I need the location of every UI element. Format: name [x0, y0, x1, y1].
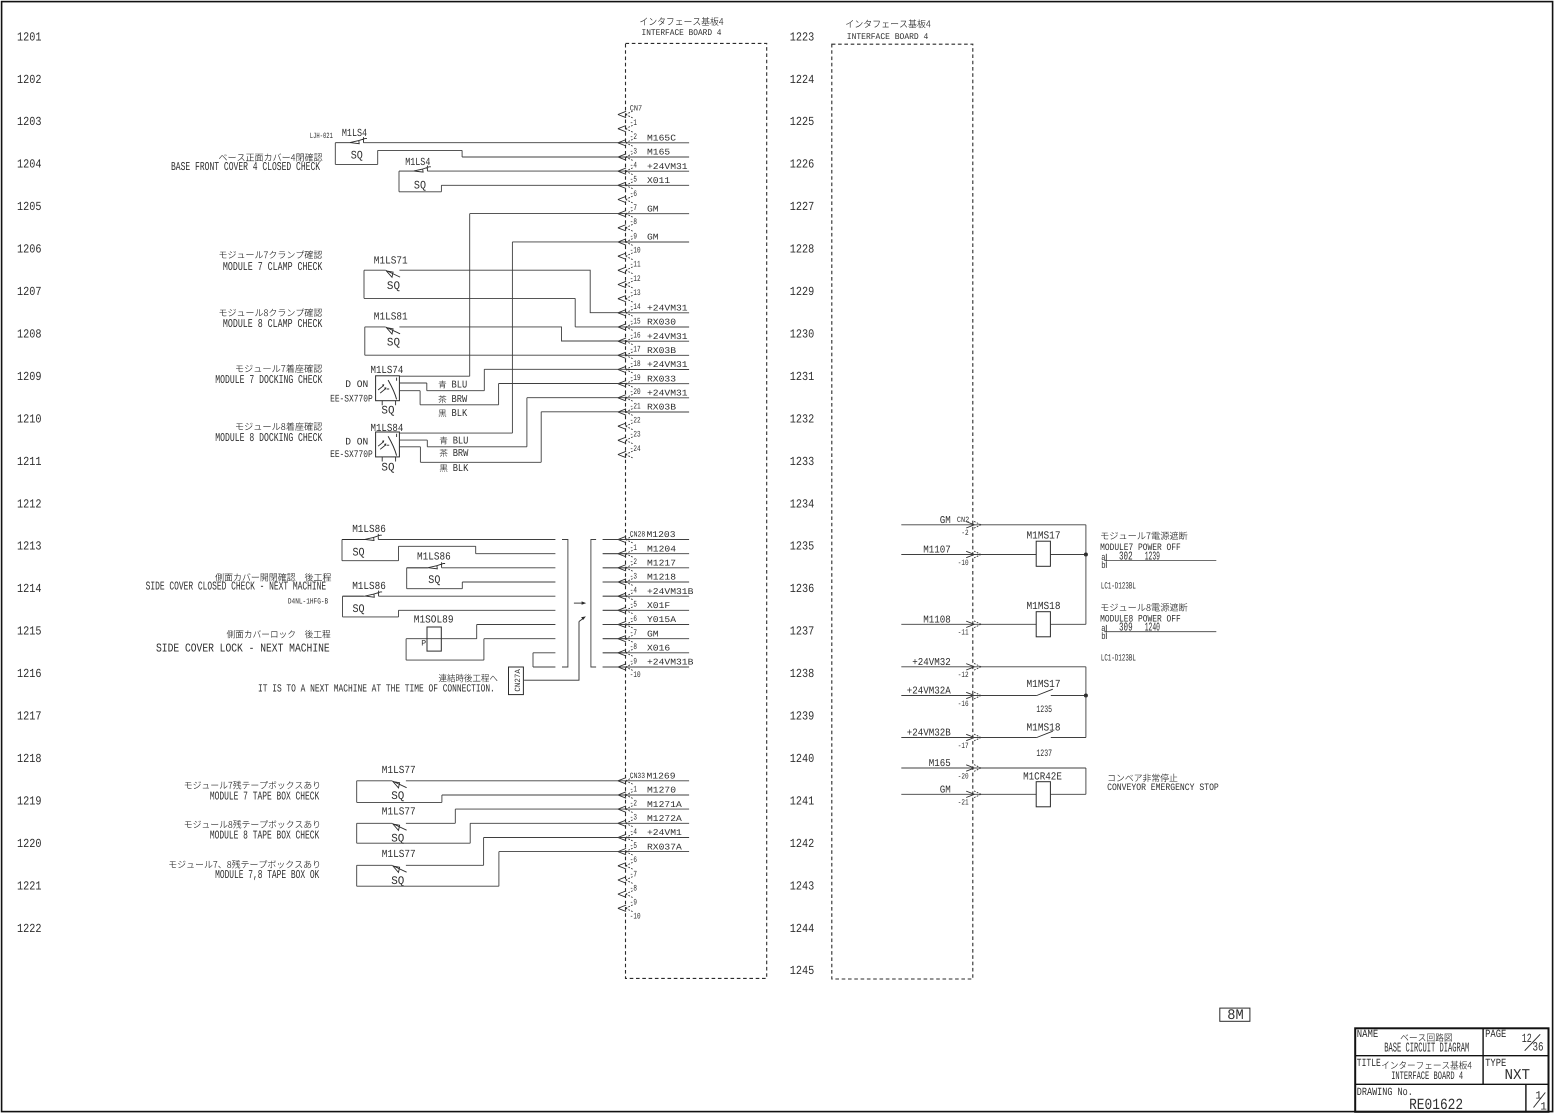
svg-text:12: 12 [1522, 1032, 1532, 1046]
svg-text:MODULE 8 DOCKING CHECK: MODULE 8 DOCKING CHECK [215, 431, 323, 445]
title block column divider [1482, 1028, 1484, 1084]
connector CN7 pin 12 chevron [618, 281, 626, 287]
wire CN7 pin 19 inner stub RX033 [626, 383, 689, 385]
connector CN33 pin 7 chevron [618, 877, 626, 883]
wire CN7 pin 20 inner stub +24VM31 [626, 397, 689, 399]
wire CN28 row 5 inner stub +24VM31B [603, 595, 689, 597]
wire row M1271A jog to switch M1LS77 no.2 [455, 809, 626, 823]
connector CN28 pin 2 chevron [618, 565, 626, 571]
svg-text:-6: -6 [630, 189, 637, 199]
svg-text:LC1-D123BL: LC1-D123BL [1101, 653, 1136, 664]
svg-text:-7: -7 [630, 869, 637, 879]
connector CN2 pin -20 chevron [966, 765, 974, 771]
svg-text:BLK: BLK [453, 463, 469, 475]
svg-text:RX037A: RX037A [647, 842, 683, 852]
svg-text:SIDE COVER LOCK - NEXT MACHINE: SIDE COVER LOCK - NEXT MACHINE [156, 642, 330, 656]
connector CN33 pin 1 chevron [618, 792, 626, 798]
interface board 4 (right) dashed outline [832, 44, 973, 979]
svg-text:1219: 1219 [17, 794, 42, 808]
svg-text:BLK: BLK [452, 408, 468, 420]
svg-text:1233: 1233 [790, 455, 815, 469]
svg-text:1239: 1239 [790, 710, 815, 724]
svg-text:-12: -12 [958, 671, 969, 680]
wire CN2 -2 GM rail [901, 525, 1086, 555]
wire solenoid M1SOL89 loop to row GM (CN28-7) [406, 639, 555, 660]
wire sensor M1LS84 top terminal to GM rail [399, 432, 512, 434]
svg-text:1242: 1242 [790, 837, 815, 851]
svg-text:302: 302 [1119, 550, 1133, 564]
8M reference box [1220, 1008, 1250, 1021]
cable bundle bracket right [591, 540, 596, 668]
wire sensor M1LS84 brown lead to CN7 pin21 RX03B [399, 412, 626, 463]
svg-text:Y015A: Y015A [647, 615, 677, 625]
svg-text:-16: -16 [630, 331, 641, 341]
svg-text:8M: 8M [1227, 1008, 1243, 1024]
svg-text:MODULE 7 CLAMP CHECK: MODULE 7 CLAMP CHECK [223, 260, 323, 274]
svg-text:INTERFACE BOARD 4: INTERFACE BOARD 4 [642, 28, 722, 38]
svg-text:-8: -8 [630, 883, 637, 893]
wire CN7 pin 15 inner stub RX030 [626, 326, 689, 328]
svg-text:INTERFACE BOARD 4: INTERFACE BOARD 4 [847, 32, 929, 42]
lead color label 黒 (sensor M1LS74) [439, 410, 447, 418]
wire switch M1LS77 no.2 loop to row M1272A [357, 823, 471, 843]
cross-reference tick a (MS17) [1105, 554, 1107, 561]
wire CN28 row 3 bundle-to-connector [603, 567, 626, 569]
wire CN7 pin2 M165C to switch M1LS4 no.1 [364, 142, 627, 144]
title block page slash [1525, 1034, 1541, 1050]
svg-text:M1270: M1270 [647, 786, 676, 796]
connector CN7 pin 18 chevron [618, 366, 626, 372]
svg-text:M165: M165 [647, 148, 670, 158]
svg-text:M165C: M165C [647, 134, 676, 144]
wire sensor M1LS74 brown lead to CN7 pin19 RX033 [399, 384, 626, 405]
svg-text:BLU: BLU [453, 435, 469, 447]
svg-text:-10: -10 [630, 670, 641, 680]
svg-text:1207: 1207 [17, 285, 42, 299]
connector CN7 pin 14 chevron [618, 310, 626, 316]
svg-text:-12: -12 [630, 274, 641, 284]
svg-text:1230: 1230 [790, 328, 815, 342]
svg-text:M1271A: M1271A [647, 800, 683, 810]
svg-text:1234: 1234 [790, 497, 815, 511]
connector CN7 pin 11 chevron [618, 267, 626, 273]
svg-text:1225: 1225 [790, 115, 815, 129]
svg-text:PAGE: PAGE [1485, 1029, 1507, 1041]
wire solenoid M1SOL89 right lead to row Y015A [441, 625, 555, 639]
svg-text:1204: 1204 [17, 158, 42, 172]
label ベース正面カバー4閉確認 [219, 153, 322, 161]
svg-text:MODULE 7 DOCKING CHECK: MODULE 7 DOCKING CHECK [215, 373, 323, 387]
wire CN7 pin 21 inner stub RX03B [626, 411, 689, 413]
svg-text:-2: -2 [630, 798, 637, 808]
wire switch M1LS86 no.2 loop to row M1218 [407, 568, 556, 589]
svg-text:-16: -16 [958, 700, 969, 709]
lead color label 青 (sensor M1LS84) [440, 436, 448, 444]
svg-text:-2: -2 [961, 529, 968, 538]
wire CN28 row 6 bundle-to-connector [603, 609, 626, 611]
svg-text:D ON: D ON [345, 380, 368, 391]
svg-text:-2: -2 [630, 557, 637, 567]
svg-text:MODULE 8 TAPE BOX CHECK: MODULE 8 TAPE BOX CHECK [210, 828, 320, 842]
label コンベア非常停止 [1109, 774, 1178, 783]
wire CN28 row 4 bundle-to-connector [603, 581, 626, 583]
svg-text:-8: -8 [630, 642, 637, 652]
lead color label 黒 (sensor M1LS84) [440, 464, 448, 472]
wire CN7 pin 18 inner stub +24VM31 [626, 369, 689, 371]
wire CN7 pin 17 inner stub RX03B [626, 354, 689, 356]
board2 title japanese インタフェース基板4 [846, 19, 930, 28]
label モジュール8残テープボックスあり [185, 820, 319, 829]
wire CN2 -10 M1107 to coil M1MS17 [901, 554, 1036, 556]
svg-text:NAME: NAME [1357, 1029, 1379, 1041]
svg-text:1223: 1223 [790, 30, 815, 44]
svg-text:-22: -22 [630, 416, 641, 426]
label 側面カバー開閉確認 後工程 [215, 573, 331, 581]
label モジュール8クランプ確認 [220, 308, 323, 316]
svg-text:M1204: M1204 [647, 544, 676, 554]
svg-text:BLU: BLU [452, 379, 468, 391]
connector CN2 pin -11 chevron [966, 621, 974, 627]
connector CN33 pin 2 chevron [618, 806, 626, 812]
wire switch M1LS86 no.1 row M1203 [342, 539, 555, 541]
switch M1LS71 (SQ limit switch) [386, 270, 400, 277]
wire CN7 pin 14 inner stub +24VM31 [626, 312, 689, 314]
svg-text:1202: 1202 [17, 73, 42, 87]
wire solenoid M1SOL89 left lead GM row [406, 638, 441, 640]
svg-text:CONVEYOR EMERGENCY STOP: CONVEYOR EMERGENCY STOP [1107, 782, 1219, 793]
wire switch M1LS77 no.3 row from +24VM1 [357, 838, 626, 866]
connector CN7 pin 20 chevron [618, 395, 626, 401]
wire CN7 pin 4 inner stub +24VM31 [626, 170, 689, 172]
wire CN2 -16 +24VM32A to contact M1MS17 [901, 695, 1036, 697]
svg-text:1244: 1244 [790, 922, 815, 936]
connector CN7 pin 16 chevron [618, 338, 626, 344]
svg-text:SQ: SQ [428, 574, 440, 587]
svg-text:EE-SX770P: EE-SX770P [330, 450, 373, 461]
wire CN28 row 5 bundle-to-connector [603, 595, 626, 597]
wire CN28 row 9 bundle-to-connector [603, 652, 626, 654]
svg-text:-3: -3 [630, 571, 637, 581]
svg-text:M1LS71: M1LS71 [374, 256, 408, 268]
wire switch M1LS4 no.1 return loop to CN7 pin3 M165 [335, 143, 626, 165]
connector CN7 pin 23 chevron [618, 437, 626, 443]
svg-text:DRAWING No.: DRAWING No. [1357, 1087, 1413, 1099]
connector CN7 pin 8 chevron [618, 225, 626, 231]
svg-text:MODULE 7 TAPE BOX CHECK: MODULE 7 TAPE BOX CHECK [210, 789, 320, 803]
wire CN7 pin4 +24VM31 to switch M1LS4 no.2 [427, 170, 626, 172]
cross-reference tick b (MS18) [1105, 632, 1107, 639]
title block row divider 2 [1355, 1083, 1548, 1085]
svg-text:NXT: NXT [1505, 1067, 1531, 1084]
svg-text:1226: 1226 [790, 158, 815, 172]
svg-text:SQ: SQ [387, 337, 400, 350]
svg-text:1222: 1222 [17, 922, 42, 936]
svg-text:MODULE 7,8 TAPE BOX OK: MODULE 7,8 TAPE BOX OK [215, 868, 320, 882]
wire CN33 row 5 inner stub +24VM1 [626, 837, 689, 839]
svg-text:+24VM31: +24VM31 [647, 332, 688, 342]
connector CN2 pin -16 chevron [966, 692, 974, 698]
svg-text:-11: -11 [630, 260, 641, 270]
wire CN28 row 1 bundle-to-connector [603, 539, 626, 541]
switch M1LS77 no.3 (SQ limit switch) [392, 866, 406, 873]
title block page cell divider [1525, 1084, 1527, 1112]
svg-text:1218: 1218 [17, 752, 42, 766]
svg-text:RX030: RX030 [647, 318, 676, 328]
lead color label 青 (sensor M1LS74) [439, 380, 447, 388]
svg-text:-5: -5 [630, 175, 637, 185]
wire switch M1LS86 no.3 row +24VM31B [343, 595, 556, 597]
svg-text:-10: -10 [630, 912, 641, 922]
connector CN33 pin 3 chevron [618, 820, 626, 826]
switch M1LS86 no.3 (SQ limit switch) [343, 591, 383, 598]
svg-text:-17: -17 [958, 742, 969, 751]
relay coil M1CR42E [1036, 782, 1050, 807]
svg-text:1221: 1221 [17, 879, 42, 893]
switch M1LS81 (SQ limit switch) [386, 327, 400, 334]
connector CN7 pin 15 chevron [618, 324, 626, 330]
svg-text:1240: 1240 [790, 752, 815, 766]
wire +24VM32 rail down to contact M1MS18 [1085, 696, 1087, 738]
svg-text:+24VM31B: +24VM31B [647, 587, 693, 597]
svg-text:SQ: SQ [351, 149, 363, 162]
connector CN2 pin -17 chevron [966, 734, 974, 740]
svg-text:-4: -4 [630, 161, 637, 171]
svg-text:MODULE7 POWER OFF: MODULE7 POWER OFF [1100, 542, 1181, 553]
label モジュール7電源遮断 [1101, 532, 1187, 541]
wire CN7 pin 3 inner stub M165 [626, 156, 689, 158]
title block title インターフェース基板4 [1382, 1061, 1472, 1070]
wire CN2 -17 +24VM32B to contact M1MS18 [901, 737, 1036, 739]
wire switch M1LS81 loop to CN7 pin17 RX03B [365, 327, 626, 355]
connector CN7 pin 21 chevron [618, 409, 626, 415]
wire switch M1LS4 no.2 return loop to CN7 pin5 X011 [399, 171, 626, 192]
label モジュール7、8残テープボックスあり [169, 860, 319, 869]
svg-text:RX03B: RX03B [647, 346, 676, 356]
connector CN28 pin 3 chevron [618, 579, 626, 585]
svg-text:-4: -4 [630, 586, 637, 596]
svg-text:-21: -21 [958, 799, 969, 808]
relay coil M1MS17 [1036, 541, 1050, 566]
svg-text:LJH-021: LJH-021 [310, 132, 333, 141]
svg-text:-9: -9 [630, 656, 637, 666]
relay contact M1MS18 (NO) [1037, 731, 1053, 737]
wire CN28 row 1 inner stub M1203 [603, 539, 689, 541]
svg-text:1208: 1208 [17, 328, 42, 342]
svg-text:1212: 1212 [17, 497, 42, 511]
svg-text:1220: 1220 [17, 837, 42, 851]
svg-text:1228: 1228 [790, 243, 815, 257]
wire coil M1CR42E to M165 rail [1050, 793, 1086, 795]
svg-text:1241: 1241 [790, 794, 815, 808]
connector CN28 pin 7 chevron [618, 636, 626, 642]
relay contact M1MS17 (NO) [1037, 689, 1053, 695]
svg-text:1231: 1231 [790, 370, 815, 384]
svg-text:1213: 1213 [17, 540, 42, 554]
connector CN33 pin housing chevron [618, 778, 626, 784]
svg-text:M1LS77: M1LS77 [382, 807, 416, 819]
wire CN28 row 10 bundle-to-connector [603, 666, 626, 668]
lead color label 茶 (sensor M1LS74) [438, 395, 446, 403]
svg-text:-3: -3 [630, 146, 637, 156]
svg-text:MODULE8 POWER OFF: MODULE8 POWER OFF [1100, 613, 1181, 624]
svg-text:X016: X016 [647, 644, 670, 654]
svg-text:+24VM31B: +24VM31B [647, 658, 693, 668]
cross-reference tick b (MS17) [1105, 561, 1107, 568]
svg-text:1245: 1245 [790, 964, 815, 978]
switch M1LS77 no.1 (SQ limit switch) [392, 781, 406, 788]
svg-text:-6: -6 [630, 855, 637, 865]
svg-text:M1LS81: M1LS81 [374, 311, 408, 323]
wire CN28 row 8 bundle-to-connector [603, 638, 626, 640]
svg-text:1: 1 [1540, 1102, 1547, 1114]
connector CN2 pin -2 chevron [966, 522, 974, 528]
board1 title japanese インタフェース基板4 [640, 17, 723, 26]
wire CN28 row 6 inner stub X01F [603, 609, 689, 611]
arrow from CN27A to next machine cable [524, 622, 579, 681]
svg-text:INTERFACE BOARD 4: INTERFACE BOARD 4 [1391, 1071, 1463, 1083]
svg-text:IT IS TO A NEXT MACHINE AT THE: IT IS TO A NEXT MACHINE AT THE TIME OF C… [258, 683, 495, 695]
wire CN7 pin 16 inner stub +24VM31 [626, 340, 689, 342]
svg-text:-10: -10 [630, 246, 641, 256]
svg-text:GM: GM [647, 233, 659, 243]
wire CN28 row 7 inner stub Y015A [603, 624, 689, 626]
wire switch M1LS77 no.3 loop to row RX037A [357, 852, 626, 887]
svg-text:-19: -19 [630, 373, 641, 383]
svg-text:1203: 1203 [17, 115, 42, 129]
svg-text:-23: -23 [630, 430, 641, 440]
svg-text:-8: -8 [630, 217, 637, 227]
wire CN7 pin9 GM down to sensor M1LS84 [512, 242, 626, 433]
svg-text:1239: 1239 [1145, 550, 1160, 564]
svg-text:X011: X011 [647, 176, 670, 186]
wire contact M1MS17 to +24VM32 rail junction [1051, 695, 1086, 697]
wire contact M1MS18 to rail [1051, 737, 1086, 739]
svg-text:-5: -5 [630, 600, 637, 610]
svg-text:M1272A: M1272A [647, 814, 683, 824]
wire CN33 row 2 inner stub M1270 [626, 794, 689, 796]
svg-text:-14: -14 [630, 302, 641, 312]
svg-text:M1SOL89: M1SOL89 [414, 615, 454, 627]
svg-text:-7: -7 [630, 203, 637, 213]
svg-text:P: P [421, 639, 426, 648]
cross-reference rule (MS17) [1104, 560, 1216, 562]
wire sensor M1LS84 blue lead to CN7 pin20 +24VM31 [399, 398, 626, 447]
svg-text:1210: 1210 [17, 412, 42, 426]
connector CN28 pin 9 chevron [618, 664, 626, 670]
connector CN33 pin 9 chevron [618, 905, 626, 911]
cross-reference tick a (MS18) [1105, 625, 1107, 632]
wire switch M1LS71 loop to CN7 pin15 RX030 [364, 270, 626, 327]
svg-text:1235: 1235 [1036, 704, 1052, 715]
svg-text:-1: -1 [630, 543, 637, 553]
svg-text:D ON: D ON [345, 437, 368, 448]
svg-text:-17: -17 [630, 345, 641, 355]
connector CN28 pin 4 chevron [618, 593, 626, 599]
cable bundle bracket left [562, 540, 568, 668]
svg-text:-21: -21 [630, 401, 641, 411]
svg-text:1236: 1236 [790, 582, 815, 596]
connector CN7 pin housing chevron [618, 111, 626, 117]
svg-text:-9: -9 [630, 231, 637, 241]
wire CN28 row 3 inner stub M1217 [603, 567, 689, 569]
connector CN7 pin 10 chevron [618, 253, 626, 259]
svg-text:1215: 1215 [17, 625, 42, 639]
wire rows X016/+24VM31B jog [533, 653, 555, 667]
label モジュール7残テープボックスあり [185, 781, 319, 790]
wire CN28 row 2 inner stub M1204 [603, 553, 689, 555]
svg-text:M1LS86: M1LS86 [417, 552, 451, 564]
svg-text:BASE FRONT COVER 4 CLOSED CHEC: BASE FRONT COVER 4 CLOSED CHECK [171, 160, 321, 174]
svg-text:-13: -13 [630, 288, 641, 298]
connector CN7 pin 3 chevron [618, 154, 626, 160]
label モジュール8電源遮断 [1101, 603, 1187, 612]
svg-text:BASE CIRCUIT DIAGRAM: BASE CIRCUIT DIAGRAM [1384, 1042, 1469, 1057]
svg-text:SQ: SQ [353, 546, 365, 559]
wire CN28 row 9 inner stub X016 [603, 652, 689, 654]
connector CN33 pin 8 chevron [618, 891, 626, 897]
svg-text:LC1-D123BL: LC1-D123BL [1101, 581, 1136, 592]
svg-text:1216: 1216 [17, 667, 42, 681]
svg-text:1224: 1224 [790, 73, 815, 87]
svg-text:1209: 1209 [17, 370, 42, 384]
wire CN2 -20 M165 rail [901, 768, 1086, 794]
svg-text:1211: 1211 [17, 455, 42, 469]
switch M1LS77 no.2 (SQ limit switch) [392, 824, 406, 831]
wire switch M1LS86 no.3 loop to row X01F [343, 596, 556, 617]
note 連結時後工程へ [439, 674, 498, 682]
relay coil M1MS18 [1036, 612, 1050, 637]
wire CN33 row 1 inner stub M1269 [626, 780, 689, 782]
svg-text:1206: 1206 [17, 243, 42, 257]
svg-text:1240: 1240 [1145, 621, 1160, 635]
svg-text:309: 309 [1119, 621, 1133, 635]
connector CN28 pin 6 chevron [618, 621, 626, 627]
svg-text:+24VM1: +24VM1 [647, 828, 682, 838]
wire CN33 row 4 inner stub M1272A [626, 822, 689, 824]
wire CN7 pin 5 inner stub X011 [626, 184, 689, 186]
title block sheet slash [1534, 1093, 1546, 1108]
svg-text:SQ: SQ [387, 280, 400, 293]
svg-text:1227: 1227 [790, 200, 815, 214]
cross-reference rule (MS18) [1104, 631, 1216, 633]
svg-text:-1: -1 [630, 118, 637, 128]
connector CN7 pin 6 chevron [618, 196, 626, 202]
svg-text:1235: 1235 [790, 540, 815, 554]
svg-text:X01F: X01F [647, 601, 670, 611]
svg-text:RX03B: RX03B [647, 403, 676, 413]
wire CN28 row 8 inner stub GM [603, 638, 689, 640]
switch M1LS4 no.1 (SQ limit switch) [335, 137, 367, 144]
svg-text:GM: GM [647, 204, 659, 214]
svg-text:SQ: SQ [414, 179, 426, 192]
svg-text:-20: -20 [630, 387, 641, 397]
wire CN33 row 3 inner stub M1271A [626, 808, 689, 810]
svg-text:GM: GM [647, 629, 659, 639]
title block outline [1355, 1028, 1548, 1112]
svg-text:D4NL-1HFG-B: D4NL-1HFG-B [288, 597, 328, 606]
svg-text:-7: -7 [630, 628, 637, 638]
svg-text:M1LS77: M1LS77 [382, 849, 416, 861]
wire switch M1LS77 no.2 row [357, 822, 626, 824]
svg-text:1201: 1201 [17, 30, 42, 44]
interface board 4 (left) dashed outline [626, 43, 767, 978]
svg-text:M1MS18: M1MS18 [1027, 722, 1061, 734]
svg-text:EE-SX770P: EE-SX770P [330, 394, 373, 405]
wire CN33 row 6 inner stub RX037A [626, 851, 689, 853]
connector CN7 pin 2 chevron [618, 140, 626, 146]
svg-text:-1: -1 [630, 784, 637, 794]
svg-text:SQ: SQ [391, 790, 404, 803]
